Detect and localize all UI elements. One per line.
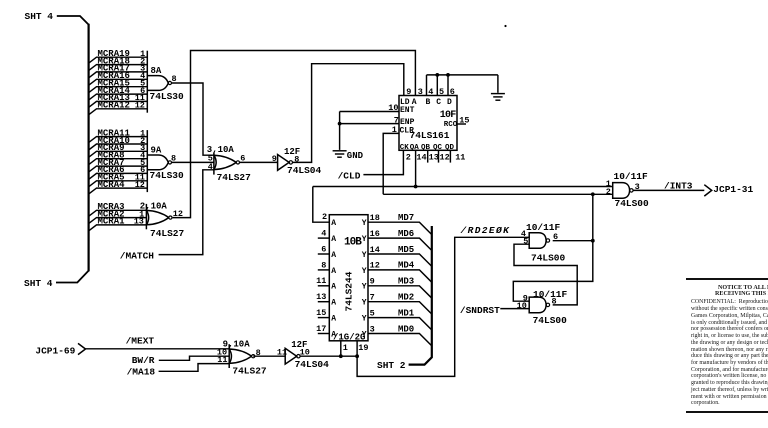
wire MCRA2 <box>89 218 147 224</box>
pin 13 stub of U10B <box>318 301 330 303</box>
svg-text:74LS00: 74LS00 <box>531 253 566 264</box>
svg-text:ENT: ENT <box>400 106 415 115</box>
svg-text:Y: Y <box>362 315 367 324</box>
svg-text:MD3: MD3 <box>398 277 414 287</box>
wire MD7 <box>368 222 432 234</box>
wire SHT4 top to bus <box>57 16 89 25</box>
svg-text:12: 12 <box>135 101 145 111</box>
notice text block <box>686 275 768 415</box>
svg-text:74LS27: 74LS27 <box>217 172 252 183</box>
svg-text:BW/R: BW/R <box>132 355 155 366</box>
pin 19 enable lead <box>356 341 358 356</box>
svg-text:A: A <box>331 330 336 339</box>
wire MCRA8 <box>89 159 148 165</box>
svg-text:A: A <box>331 235 336 244</box>
wire MD bus to SHT2 <box>409 226 432 365</box>
svg-text:Y: Y <box>362 283 367 292</box>
wire 8A output to 3,10A pin3 <box>172 83 214 155</box>
svg-text:MD5: MD5 <box>398 245 414 255</box>
IC U10F 74LS161 body <box>399 96 457 151</box>
pin 13 QB stub <box>427 150 429 162</box>
wire 9A output to 3,10A pin5 <box>172 161 214 163</box>
wire ENT pin10 <box>340 111 399 113</box>
inverter 12F 74LS04 bottom <box>285 348 297 364</box>
svg-text:17: 17 <box>316 324 326 334</box>
wire QA net to NAND pin1 and buffer A1 <box>313 186 613 188</box>
IC U10B 74LS244 body <box>329 215 368 341</box>
nand gate 10/11F output 74LS00 <box>613 183 630 199</box>
svg-text:4: 4 <box>428 87 433 97</box>
wire 9,10A output to 12F <box>253 355 285 357</box>
wire 2,10A output 12 to counter pin A <box>173 51 416 218</box>
svg-text:11: 11 <box>455 152 465 162</box>
wire upper latch output to CLR net <box>553 240 593 242</box>
svg-text:CK: CK <box>400 144 410 152</box>
svg-text:11: 11 <box>217 355 227 365</box>
svg-text:D: D <box>447 98 452 107</box>
pin 15 RCO stub <box>457 123 466 125</box>
svg-text:74LS27: 74LS27 <box>232 365 267 376</box>
wire MCRA18 <box>89 65 148 71</box>
svg-text:/1G/2G: /1G/2G <box>333 333 365 343</box>
wire MCRA19 <box>89 57 148 63</box>
svg-text:Y: Y <box>362 235 367 244</box>
svg-text:/MATCH: /MATCH <box>120 250 155 261</box>
svg-text:A: A <box>331 251 336 260</box>
nand gate 8A 74LS30 <box>146 51 148 113</box>
nor gate 3,10A 74LS27 <box>213 152 215 174</box>
wire MD3 <box>368 286 432 298</box>
svg-text:Y: Y <box>362 219 367 228</box>
svg-text:10: 10 <box>388 103 398 113</box>
pin 17 stub of U10B <box>318 333 330 335</box>
svg-text:74LS161: 74LS161 <box>410 130 450 141</box>
svg-text:12: 12 <box>440 152 450 162</box>
svg-text:C: C <box>436 98 441 107</box>
wire bus SHT4 vertical <box>87 24 89 272</box>
wire 12F output to 1G/2G enables <box>301 355 358 357</box>
svg-text:4: 4 <box>321 229 326 239</box>
wire MCRA15 <box>89 87 148 93</box>
wire MD5 <box>368 254 432 266</box>
svg-text:MD1: MD1 <box>398 308 415 318</box>
wire enable net to RD2E0K <box>357 237 529 376</box>
svg-text:/CLD: /CLD <box>338 170 361 181</box>
svg-text:B: B <box>426 98 431 107</box>
svg-text:QA: QA <box>410 144 420 152</box>
wire MCRA7 <box>89 166 148 172</box>
svg-text:8: 8 <box>321 260 326 270</box>
wire 3,10A output to 12F inverter <box>239 161 278 163</box>
wire MCRA3 <box>89 210 147 216</box>
nand gate 10/11F upper latch 74LS00 <box>529 233 546 249</box>
pin 11 stub of U10B <box>318 285 330 287</box>
svg-text:8: 8 <box>552 297 557 307</box>
wire MCRA12 <box>89 109 148 115</box>
svg-text:10/11F: 10/11F <box>533 289 568 300</box>
wire B C D pins tie to ground <box>426 75 428 96</box>
svg-text:74LS04: 74LS04 <box>287 165 322 176</box>
svg-text:MD4: MD4 <box>398 261 415 271</box>
svg-text:1: 1 <box>343 343 348 353</box>
wire MD6 <box>368 238 432 250</box>
wire MCRA10 <box>89 144 148 150</box>
wire MCRA13 <box>89 101 148 107</box>
svg-text:2: 2 <box>406 152 411 162</box>
svg-text:/INT3: /INT3 <box>664 180 693 191</box>
wire MD4 <box>368 270 432 282</box>
svg-text:GND: GND <box>347 151 364 161</box>
wire MCRA1 <box>89 225 147 231</box>
svg-text:A: A <box>331 299 336 308</box>
wire MCRA11 <box>89 137 148 143</box>
wire MCRA16 <box>89 79 148 85</box>
horizontal rule below notice <box>686 411 768 413</box>
svg-text:8A: 8A <box>151 66 162 76</box>
svg-text:74LS00: 74LS00 <box>615 198 650 209</box>
svg-text:QC: QC <box>433 144 443 152</box>
wire INT3 output to JCP1-31 <box>633 189 704 191</box>
svg-text:13: 13 <box>134 217 144 227</box>
wire BW/R <box>159 356 229 360</box>
svg-text:Y: Y <box>362 330 367 339</box>
svg-text:10F: 10F <box>440 110 456 121</box>
svg-text:13: 13 <box>316 292 326 302</box>
svg-text:14: 14 <box>416 152 426 162</box>
wire MCRA6 <box>89 173 148 179</box>
node JCP1-31 connector <box>704 185 711 196</box>
svg-text:JCP1-31: JCP1-31 <box>713 184 753 195</box>
svg-text:9: 9 <box>272 154 277 164</box>
svg-text:/MEXT: /MEXT <box>126 336 155 347</box>
svg-text:A: A <box>331 283 336 292</box>
svg-text:/RD2EØK: /RD2EØK <box>460 225 511 236</box>
wire 12F output to counter pin LD <box>293 64 404 163</box>
nor gate 9,10A 74LS27 <box>228 344 230 368</box>
ground symbol GND <box>333 150 347 152</box>
wire lower latch output feedback to pin5 <box>514 244 577 305</box>
svg-text:4: 4 <box>208 162 213 172</box>
horizontal rule above notice <box>686 278 768 280</box>
svg-text:/SNDRST: /SNDRST <box>460 305 500 316</box>
svg-text:10B: 10B <box>344 236 362 248</box>
pin 1 enable lead <box>340 341 342 356</box>
svg-text:SHT 2: SHT 2 <box>377 360 406 371</box>
svg-text:12: 12 <box>135 180 145 190</box>
svg-text:Y: Y <box>362 299 367 308</box>
ground symbol right of counter <box>491 93 505 95</box>
svg-text:7: 7 <box>394 115 399 125</box>
svg-text:6: 6 <box>321 244 326 254</box>
wire MCRA5 <box>89 181 148 187</box>
svg-text:3: 3 <box>418 87 423 97</box>
wire MCRA14 <box>89 94 148 100</box>
wire MEXT <box>86 348 230 350</box>
pin 12 QC stub <box>438 150 440 162</box>
svg-text:RCO: RCO <box>444 121 458 129</box>
svg-text:10: 10 <box>517 301 527 311</box>
svg-text:11: 11 <box>277 348 287 358</box>
svg-text:A: A <box>331 315 336 324</box>
svg-text:SHT 4: SHT 4 <box>25 11 54 22</box>
wire MD2 <box>368 302 432 314</box>
svg-text:74LS27: 74LS27 <box>150 228 185 239</box>
svg-text:A: A <box>331 267 336 276</box>
nor gate 2,10A 74LS27 <box>145 204 147 229</box>
svg-text:2: 2 <box>322 212 327 222</box>
svg-text:/MA18: /MA18 <box>127 367 156 378</box>
svg-text:MCRA12: MCRA12 <box>98 101 130 111</box>
svg-text:10/11F: 10/11F <box>614 171 649 182</box>
wire MATCH to 3,10A pin4 <box>159 170 214 255</box>
svg-text:5: 5 <box>439 87 444 97</box>
wire ENT/ENP to ground <box>339 112 341 150</box>
svg-text:SHT 4: SHT 4 <box>24 278 53 289</box>
wire SHT4 bottom from bus <box>56 271 89 283</box>
pin 11 QD stub <box>449 150 451 162</box>
svg-text:MD6: MD6 <box>398 229 414 239</box>
svg-text:74LS30: 74LS30 <box>150 170 185 181</box>
svg-text:6: 6 <box>450 87 455 97</box>
wire ENP pin7 <box>340 123 399 125</box>
wire MCRA17 <box>89 72 148 78</box>
svg-text:9: 9 <box>406 87 411 97</box>
nand gate 9A 74LS30 <box>146 130 148 192</box>
pin 8 stub of U10B <box>318 269 330 271</box>
node scan speck <box>504 25 506 27</box>
svg-text:QB: QB <box>421 144 431 152</box>
svg-text:Y: Y <box>362 267 367 276</box>
svg-text:13: 13 <box>429 152 439 162</box>
svg-text:MD0: MD0 <box>398 324 414 334</box>
svg-text:19: 19 <box>358 343 368 353</box>
svg-text:74LS00: 74LS00 <box>533 315 568 326</box>
pin 6 stub of U10B <box>318 253 330 255</box>
wire CLR net to NAND pin2 <box>383 193 613 195</box>
svg-text:74LS30: 74LS30 <box>150 91 185 102</box>
wire MCRA4 <box>89 188 148 194</box>
svg-text:11: 11 <box>316 276 326 286</box>
svg-text:MD2: MD2 <box>398 293 414 303</box>
svg-text:A: A <box>331 219 336 228</box>
inverter 12F 74LS04 top <box>278 155 290 171</box>
pin 15 stub of U10B <box>318 317 330 319</box>
svg-text:MCRA4: MCRA4 <box>98 180 126 190</box>
wire MCRA9 <box>89 151 148 157</box>
svg-text:Y: Y <box>362 251 367 260</box>
svg-text:2,10A: 2,10A <box>140 202 168 212</box>
svg-text:JCP1-69: JCP1-69 <box>35 345 75 356</box>
wire SNDRST to pin10 <box>500 308 529 310</box>
wire MD1 <box>368 318 432 330</box>
wire MA18 <box>159 364 230 372</box>
pin 4 stub of U10B <box>318 237 330 239</box>
svg-text:74LS244: 74LS244 <box>344 271 355 311</box>
svg-text:9A: 9A <box>151 146 162 156</box>
wire MD0 <box>368 334 432 346</box>
wire latch CLR net vertical <box>513 194 593 301</box>
svg-text:15: 15 <box>459 115 469 125</box>
svg-text:15: 15 <box>316 308 326 318</box>
svg-text:MCRA1: MCRA1 <box>98 217 126 227</box>
svg-text:MD7: MD7 <box>398 213 414 223</box>
svg-text:2: 2 <box>606 187 611 197</box>
nand gate 10/11F lower latch 74LS00 <box>529 297 546 313</box>
svg-text:74LS04: 74LS04 <box>295 359 330 370</box>
